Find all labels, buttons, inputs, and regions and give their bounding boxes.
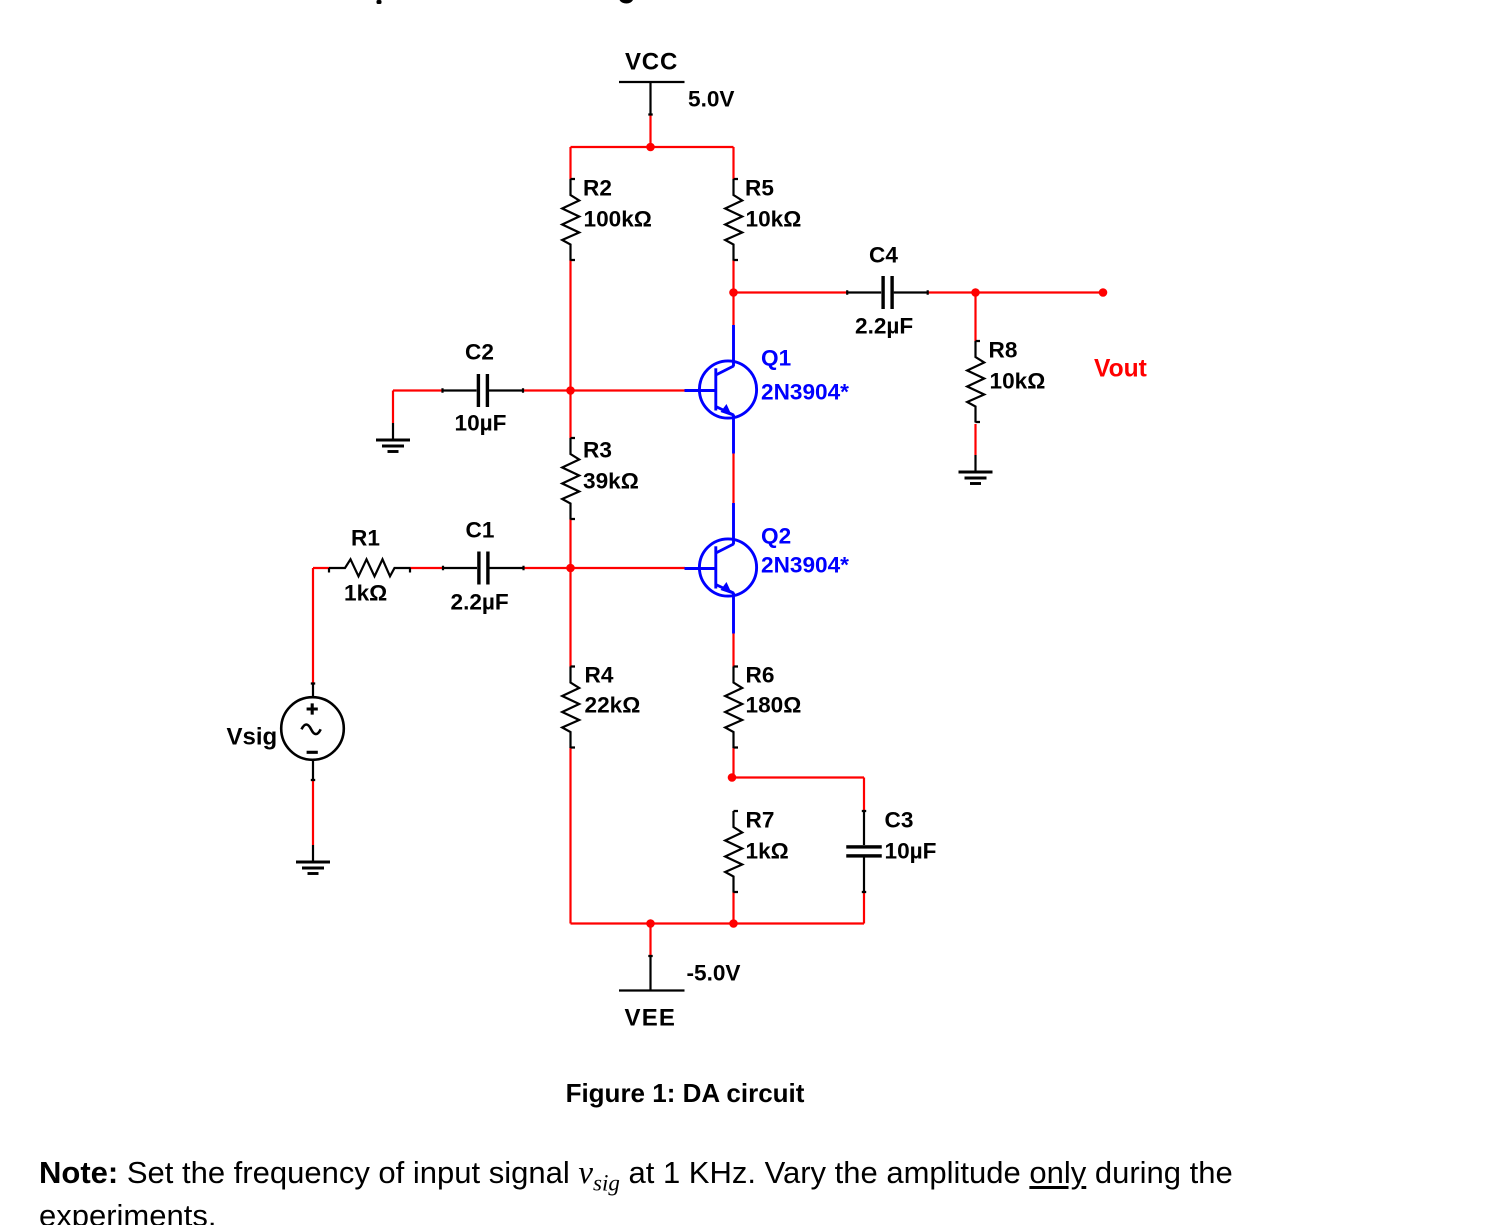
svg-text:10µF: 10µF [885,839,937,864]
svg-text:VEE: VEE [625,1005,677,1032]
svg-text:2.2µF: 2.2µF [855,314,913,339]
svg-text:R6: R6 [746,663,775,688]
svg-text:10kΩ: 10kΩ [746,207,802,232]
svg-text:180Ω: 180Ω [746,693,802,718]
svg-text:Q2: Q2 [761,524,791,549]
svg-text:1kΩ: 1kΩ [344,581,387,606]
svg-text:-5.0V: -5.0V [687,961,741,986]
svg-text:C1: C1 [466,518,495,543]
svg-text:2.2µF: 2.2µF [451,590,509,615]
svg-text:C4: C4 [869,243,898,268]
svg-text:Vsig: Vsig [227,724,278,751]
svg-text:Q1: Q1 [761,346,791,371]
svg-text:VCC: VCC [625,49,678,76]
svg-text:R8: R8 [989,338,1018,363]
svg-text:2N3904*: 2N3904* [761,380,849,405]
svg-text:R3: R3 [583,438,612,463]
svg-text:39kΩ: 39kΩ [583,469,639,494]
svg-text:C3: C3 [885,808,914,833]
svg-text:10kΩ: 10kΩ [990,369,1046,394]
svg-text:R2: R2 [583,176,612,201]
svg-text:100kΩ: 100kΩ [584,207,652,232]
svg-text:R4: R4 [585,663,614,688]
svg-text:R7: R7 [746,808,775,833]
svg-text:Vout: Vout [1094,355,1147,382]
svg-text:R1: R1 [351,526,380,551]
svg-text:C2: C2 [465,340,494,365]
svg-text:22kΩ: 22kΩ [585,693,641,718]
svg-text:2N3904*: 2N3904* [761,553,849,578]
svg-text:5.0V: 5.0V [688,87,734,112]
svg-text:10µF: 10µF [455,411,507,436]
svg-text:R5: R5 [745,176,774,201]
svg-text:1kΩ: 1kΩ [746,839,789,864]
